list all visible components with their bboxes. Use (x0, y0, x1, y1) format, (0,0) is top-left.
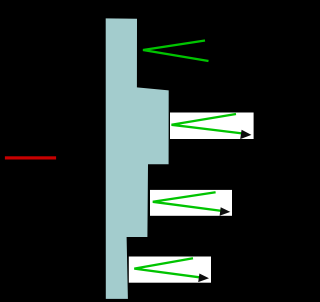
echo arrow 1 (top, no box) (143, 41, 209, 62)
arrowhead 2 (240, 130, 251, 139)
stepped reflector block (106, 18, 169, 299)
echo arrow 2 (172, 114, 252, 139)
arrowhead 3 (220, 207, 231, 216)
echo box 2 (170, 113, 254, 140)
red marker line (5, 156, 56, 159)
echo box 3 (150, 190, 232, 216)
arrowhead 4 (198, 274, 209, 283)
echo box 4 (129, 257, 211, 283)
echo arrow 4 (134, 258, 209, 282)
echo arrow 3 (153, 192, 231, 216)
